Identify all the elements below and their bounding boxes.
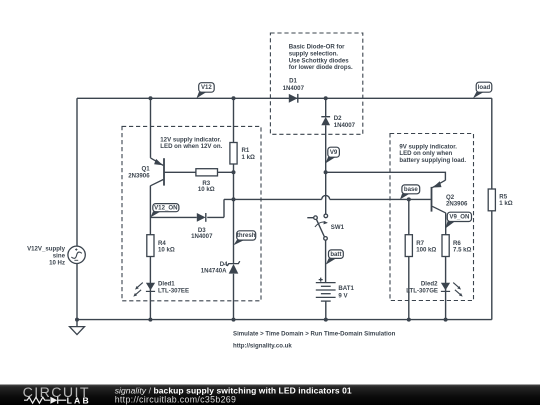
svg-text:D1: D1 [289,78,297,85]
svg-text:http://signality.co.uk: http://signality.co.uk [233,343,292,350]
svg-text:LAB: LAB [67,396,91,405]
svg-text:batt: batt [330,251,341,258]
svg-text:load: load [478,84,491,91]
svg-text:V12V_supply: V12V_supply [27,246,66,253]
svg-text:V9_ON: V9_ON [449,214,469,221]
svg-text:100 kΩ: 100 kΩ [416,246,436,253]
svg-text:1 kΩ: 1 kΩ [242,154,255,161]
svg-text:BAT1: BAT1 [338,285,354,292]
svg-text:9 V: 9 V [338,292,348,299]
svg-text:thresh: thresh [237,232,256,239]
svg-text:for lower diode drops.: for lower diode drops. [289,64,353,71]
svg-text:LTL-307GE: LTL-307GE [406,288,438,295]
svg-text:Q1: Q1 [141,165,150,172]
svg-text:1N4007: 1N4007 [334,122,356,129]
svg-text:V12: V12 [201,84,212,91]
svg-text:10 Hz: 10 Hz [49,259,65,266]
svg-text:2N3906: 2N3906 [446,201,468,208]
svg-text:LTL-307EE: LTL-307EE [158,287,189,294]
svg-text:10 kΩ: 10 kΩ [198,186,215,193]
svg-text:SW1: SW1 [331,224,345,231]
svg-text:V9: V9 [330,149,338,156]
svg-text:1N4740A: 1N4740A [201,267,227,274]
svg-text:Simulate > Time Domain > Run T: Simulate > Time Domain > Run Time-Domain… [233,331,396,338]
svg-text:V12_ON: V12_ON [154,204,177,211]
svg-text:1N4007: 1N4007 [283,85,305,92]
svg-text:1N4007: 1N4007 [191,233,213,240]
svg-text:10 kΩ: 10 kΩ [158,247,175,254]
svg-text:7.5 kΩ: 7.5 kΩ [453,246,472,253]
svg-text:base: base [404,186,419,193]
svg-text:LED on when 12V on.: LED on when 12V on. [160,143,222,150]
svg-text:battery supplying load.: battery supplying load. [399,157,466,164]
svg-text:http://circuitlab.com/c35b269: http://circuitlab.com/c35b269 [115,395,237,405]
svg-text:R1: R1 [242,147,250,154]
svg-text:1 kΩ: 1 kΩ [499,200,512,207]
svg-text:2N3906: 2N3906 [128,173,150,180]
